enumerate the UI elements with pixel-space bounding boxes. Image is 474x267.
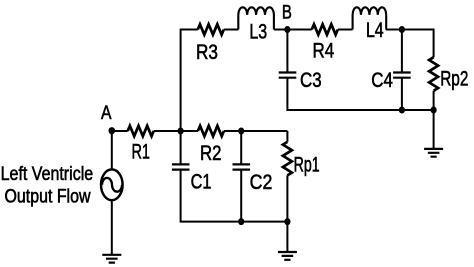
- wire C1 bottom to lower bus to Rp1: [181, 170, 288, 222]
- junction dot L4/C4: [399, 26, 405, 33]
- inductor L3: [238, 7, 274, 29]
- wire R3 to L3: [224, 29, 239, 31]
- wire C4 top lead: [401, 30, 403, 73]
- svg-text:C2: C2: [250, 171, 273, 194]
- wire source bottom to ground: [111, 201, 113, 254]
- wire R4 to L4: [338, 29, 353, 31]
- wire Rp1 top lead: [286, 131, 288, 142]
- junction dot R2/C2: [238, 128, 244, 135]
- resistor R3: [198, 24, 224, 34]
- junction dot R1/R2/C1/R3: [178, 128, 184, 135]
- svg-text:A: A: [101, 103, 112, 124]
- capacitor C3: [279, 73, 297, 78]
- wire Rp1 bottom to ground: [286, 175, 288, 252]
- resistor Rp2: [429, 57, 438, 91]
- junction dot bus Rp2: [431, 107, 437, 114]
- svg-text:Rp1: Rp1: [294, 153, 320, 176]
- wire C2 bottom lead: [240, 170, 242, 222]
- capacitor C4: [393, 73, 411, 78]
- svg-text:R2: R2: [200, 142, 222, 165]
- svg-text:L4: L4: [366, 19, 384, 42]
- svg-text:C1: C1: [191, 170, 212, 193]
- wire node B down to C3: [286, 30, 288, 73]
- wire R2 to Rp1 corner: [224, 130, 288, 132]
- svg-text:Output Flow: Output Flow: [5, 186, 91, 207]
- svg-text:R4: R4: [312, 39, 334, 62]
- inductor L4: [353, 7, 387, 29]
- capacitor C2: [233, 164, 251, 169]
- wire main row A to R1: [112, 130, 128, 132]
- node A junction dot: [109, 127, 116, 134]
- svg-text:Rp2: Rp2: [440, 67, 468, 90]
- junction dot bus C2: [238, 218, 244, 225]
- ground below Rp2: [424, 149, 443, 157]
- junction dot bus C4: [399, 107, 405, 114]
- ground below Rp1: [278, 252, 297, 260]
- wire top branch vertical and to R3: [181, 30, 198, 132]
- node B junction dot: [284, 26, 290, 33]
- resistor Rp1: [283, 142, 292, 176]
- wire C1 top lead: [180, 131, 182, 164]
- wire node A down to source: [111, 131, 113, 168]
- wire Rp2 bottom to ground: [433, 91, 435, 149]
- wire C4 bottom lead: [401, 78, 403, 110]
- svg-text:B: B: [282, 3, 292, 24]
- wire L4 to top-right corner and down to Rp2: [386, 30, 434, 58]
- wire C2 top lead: [240, 131, 242, 164]
- svg-text:Left Ventricle: Left Ventricle: [1, 164, 94, 185]
- resistor R1: [128, 126, 154, 136]
- svg-text:C3: C3: [300, 69, 322, 92]
- wire R1 to R2 through junction: [154, 130, 198, 132]
- wire L3 to node B to R4: [274, 29, 312, 31]
- svg-text:C4: C4: [371, 69, 393, 92]
- resistor R4: [312, 24, 338, 34]
- ground below source: [102, 255, 121, 263]
- svg-text:R3: R3: [196, 41, 218, 64]
- resistor R2: [198, 126, 224, 136]
- svg-text:L3: L3: [249, 21, 267, 44]
- wire C3 bottom to right bus to Rp2: [287, 78, 433, 110]
- source V1 left ventricle output flow: [101, 169, 123, 200]
- capacitor C1: [172, 164, 190, 169]
- svg-text:R1: R1: [131, 141, 150, 164]
- junction dot bus Rp1: [284, 218, 290, 225]
